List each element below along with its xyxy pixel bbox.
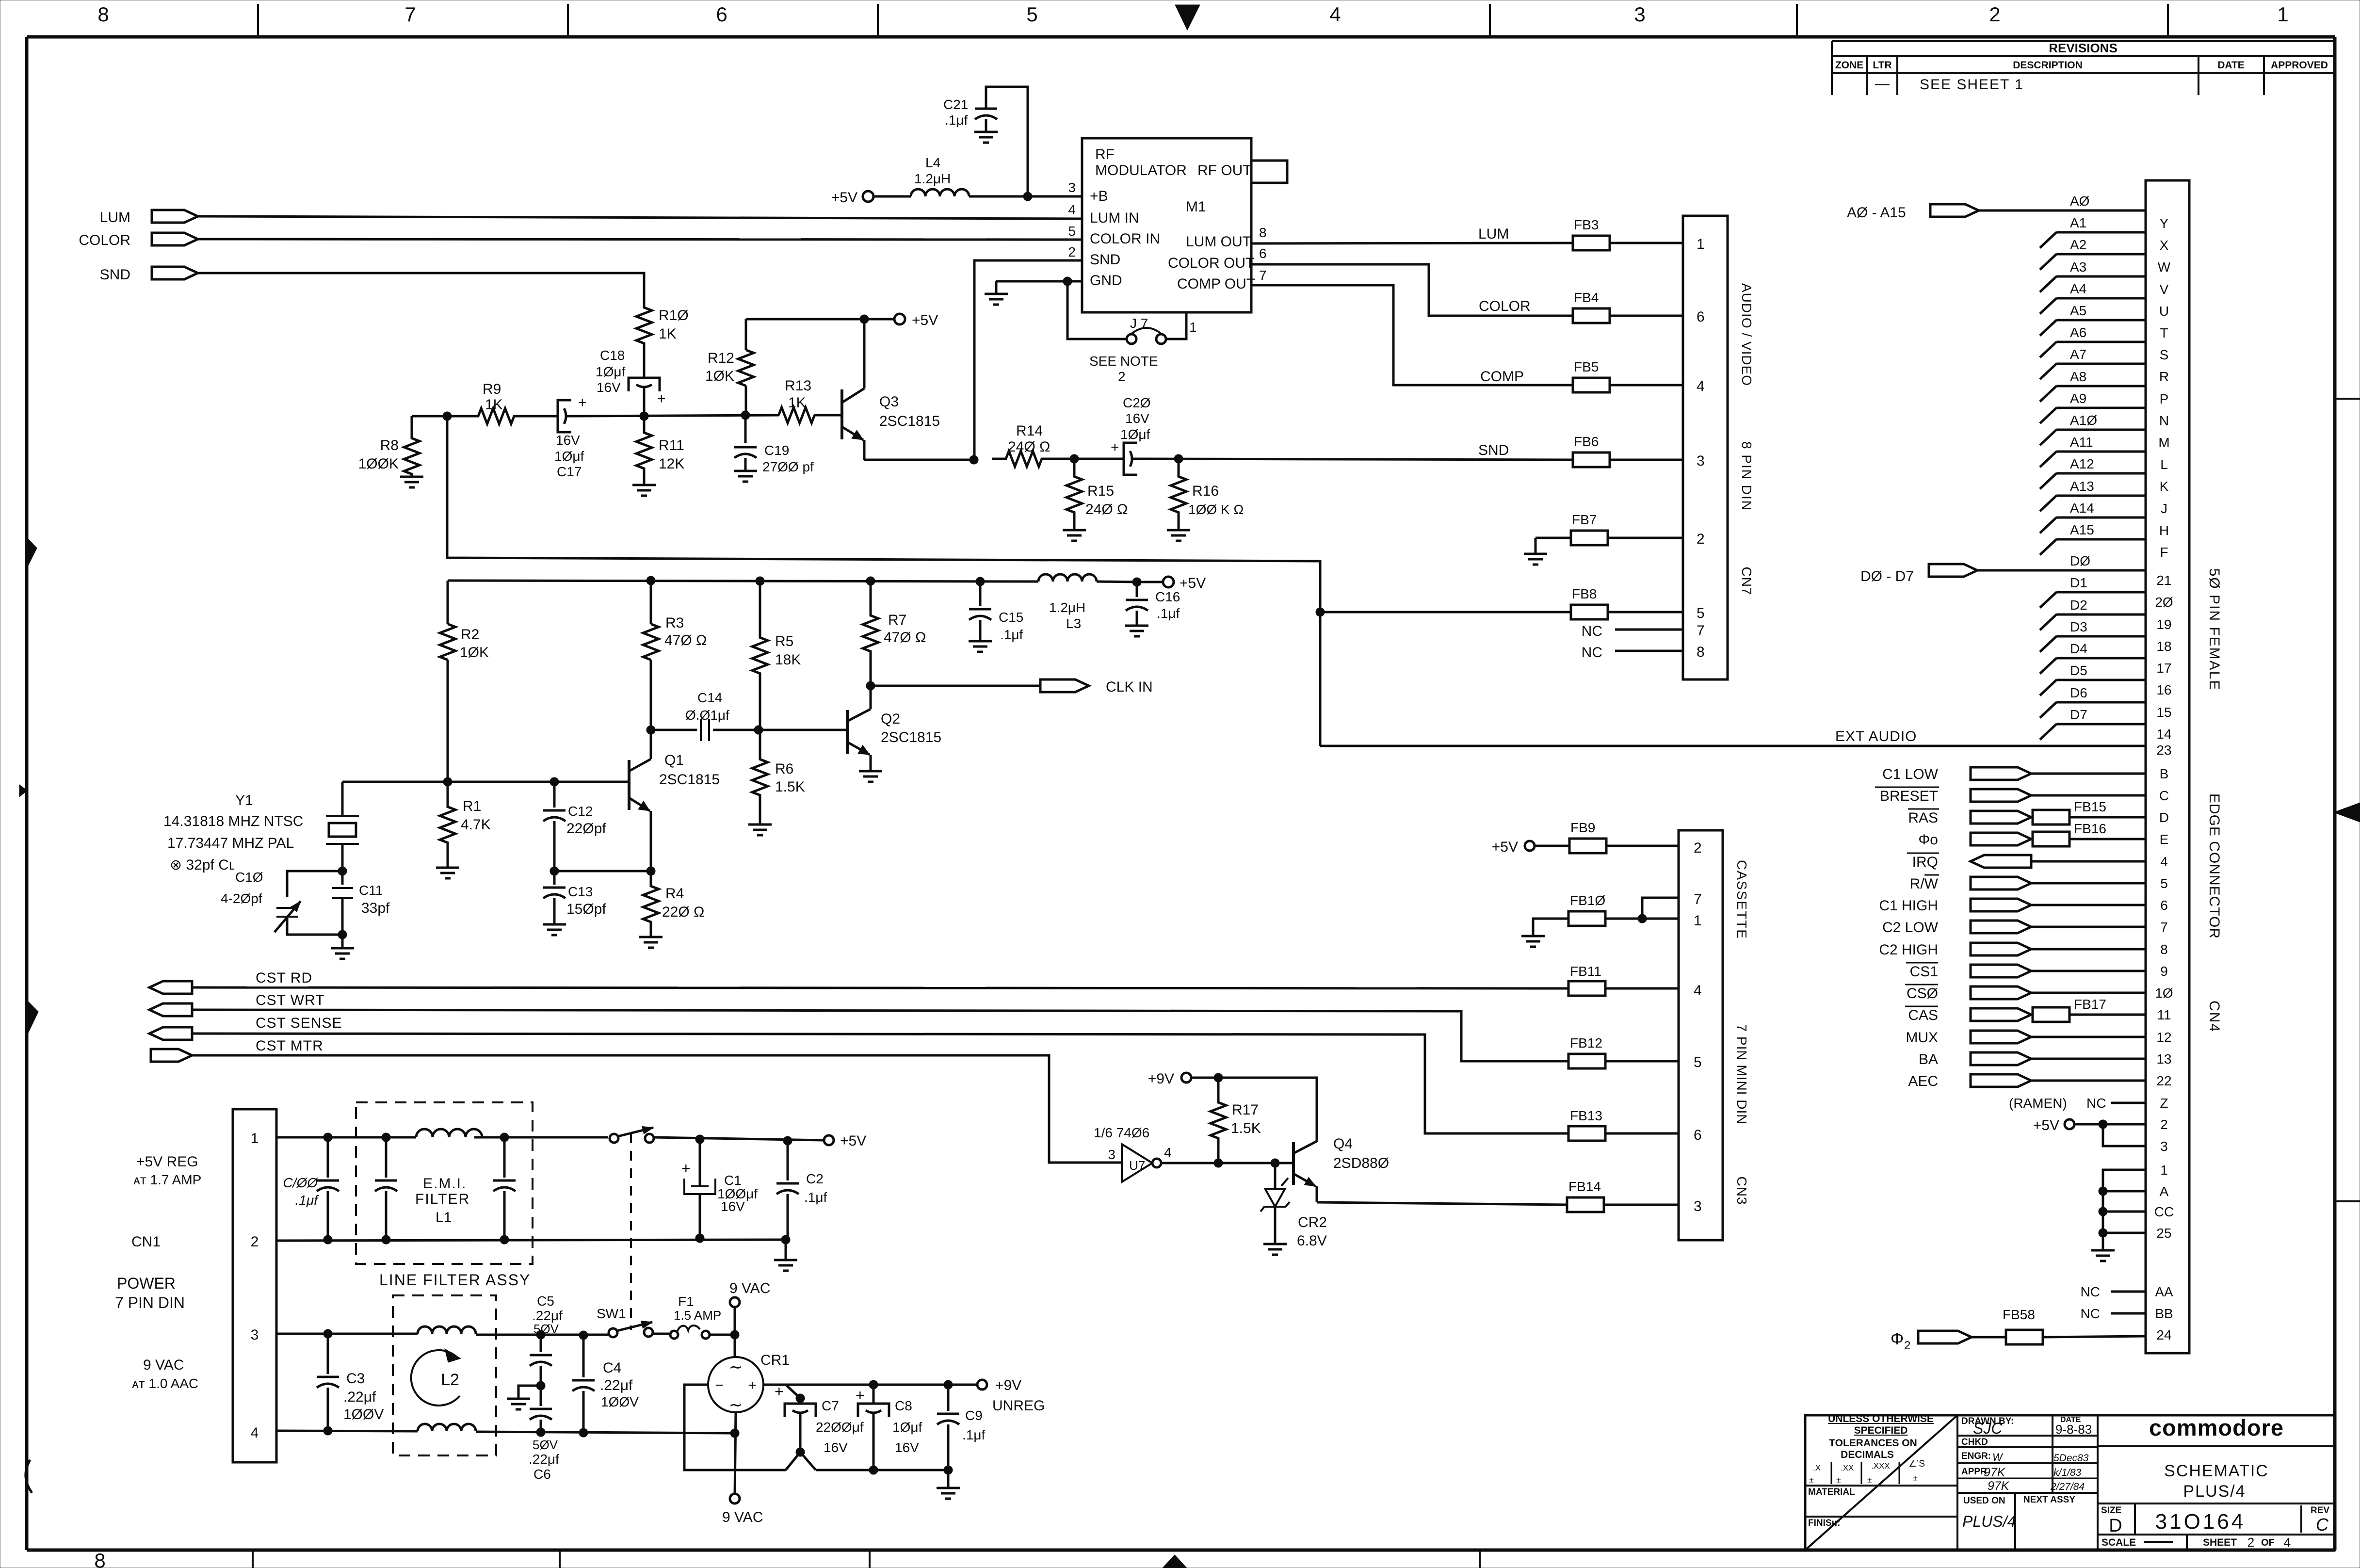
wire fuse to 9VAC node	[710, 1334, 735, 1336]
wire data line D7 to CN4	[2056, 723, 2146, 726]
capacitor C13	[553, 871, 556, 885]
svg-text:SIZE: SIZE	[2101, 1505, 2121, 1516]
ferrite bead FB3	[1573, 236, 1610, 250]
ferrite bead FB11	[1568, 981, 1605, 996]
svg-text:R17: R17	[1232, 1102, 1259, 1118]
svg-text:MATERIAL: MATERIAL	[1808, 1487, 1855, 1497]
svg-text:97K: 97K	[1984, 1466, 2006, 1479]
resistor R4	[643, 871, 659, 937]
svg-text:CST WRT: CST WRT	[256, 992, 325, 1008]
wire LUM OUT to FB3	[1251, 243, 1573, 243]
svg-text:J 7: J 7	[1130, 316, 1148, 331]
wire ground chain pins 1 A CC 25	[2103, 1170, 2146, 1250]
commodore logo	[2098, 1445, 2335, 1447]
svg-text:C7: C7	[822, 1398, 839, 1413]
wire address line A2 to CN4	[2056, 253, 2146, 256]
svg-text:C6: C6	[533, 1467, 551, 1482]
wire Q4 emitter to FB14	[1317, 1202, 1567, 1205]
transistor Q1	[628, 760, 630, 810]
svg-text:R12: R12	[708, 350, 734, 366]
svg-text:R4: R4	[665, 886, 684, 902]
svg-text:7 PIN DIN: 7 PIN DIN	[115, 1294, 185, 1311]
capacitor C10 trimmer	[338, 867, 347, 875]
svg-text:REV: REV	[2311, 1505, 2329, 1516]
capacitor C12	[553, 782, 556, 808]
svg-text:DATE: DATE	[2217, 60, 2245, 71]
wire C2 LOW to CN4 pin 7	[2031, 926, 2146, 928]
svg-text:R/W: R/W	[1910, 876, 1939, 892]
svg-text:C18: C18	[600, 348, 625, 363]
svg-text:FB11: FB11	[1570, 964, 1601, 979]
svg-text:3: 3	[1108, 1147, 1115, 1162]
svg-text:22Ø Ω: 22Ø Ω	[662, 904, 704, 920]
svg-text:.1μf: .1μf	[804, 1190, 827, 1205]
svg-text:C2 HIGH: C2 HIGH	[1879, 942, 1938, 958]
title block material row	[1805, 1485, 1957, 1487]
resistor R14	[992, 451, 1056, 467]
wire CAS to CN4 pin 11	[2031, 1014, 2033, 1016]
svg-text:K: K	[2160, 479, 2169, 494]
wire +5V rail at Q3 collector	[746, 318, 894, 321]
ferrite bead FB14	[1567, 1197, 1604, 1212]
svg-text:±: ±	[1809, 1475, 1814, 1485]
inductor L4	[873, 195, 911, 198]
svg-text:C1: C1	[724, 1173, 742, 1188]
svg-text:FB12: FB12	[1570, 1035, 1602, 1051]
svg-text:J: J	[2161, 501, 2167, 516]
title block scale sheet row	[2098, 1534, 2335, 1536]
wire address line A9 to CN4	[2056, 407, 2146, 409]
svg-text:LUM IN: LUM IN	[1090, 210, 1139, 226]
svg-text:8: 8	[1697, 644, 1705, 660]
svg-text:5Dec83: 5Dec83	[2053, 1453, 2089, 1464]
connector CN4 pin box	[2146, 180, 2189, 1353]
svg-text:1: 1	[2277, 3, 2288, 26]
svg-text:16: 16	[2156, 682, 2171, 697]
resistor R11	[636, 416, 652, 485]
svg-text:DØ - D7: DØ - D7	[1860, 568, 1914, 584]
svg-text:22: 22	[2156, 1073, 2171, 1088]
wire address line A13 to CN4	[2056, 495, 2146, 497]
svg-text:.XX: .XX	[1841, 1463, 1854, 1472]
svg-text:A2: A2	[2070, 237, 2086, 252]
svg-text:+9V: +9V	[995, 1377, 1021, 1393]
svg-text:FB58: FB58	[2003, 1307, 2035, 1322]
svg-text:A11: A11	[2070, 435, 2093, 450]
svg-text:1K: 1K	[659, 326, 677, 342]
svg-text:CS1: CS1	[1910, 964, 1938, 980]
wire address line A4 to CN4	[2056, 297, 2146, 300]
svg-text:+: +	[856, 1387, 865, 1404]
svg-text:7: 7	[1694, 891, 1702, 907]
svg-text:3: 3	[251, 1327, 259, 1343]
svg-text:REVISIONS: REVISIONS	[2049, 41, 2118, 55]
ground under R4	[639, 937, 663, 948]
title block engr row	[1957, 1462, 2098, 1464]
svg-text:EXT AUDIO: EXT AUDIO	[1835, 728, 1917, 744]
svg-text:3: 3	[1697, 453, 1705, 469]
ground under R11	[632, 485, 656, 496]
svg-text:9 VAC: 9 VAC	[729, 1280, 770, 1296]
svg-text:D7: D7	[2070, 707, 2087, 722]
svg-text:5: 5	[1068, 224, 1076, 239]
svg-text:A1: A1	[2070, 215, 2086, 230]
+9V terminal	[1181, 1073, 1191, 1083]
wire FB8 from EXT AUDIO vertical	[1320, 611, 1571, 614]
wire BRESET to CN4 pin C	[2031, 794, 2146, 797]
svg-text:7: 7	[1259, 268, 1267, 283]
wire FB10 to CN3 pins 1 and 7	[1605, 918, 1679, 920]
svg-text:SEE SHEET 1: SEE SHEET 1	[1920, 77, 2024, 93]
svg-text:RAS: RAS	[1908, 810, 1938, 826]
svg-text:CLK IN: CLK IN	[1106, 679, 1153, 695]
wire D bus to ladder	[1977, 569, 2056, 572]
svg-text:U: U	[2159, 304, 2169, 319]
ground end of line 2	[785, 1240, 787, 1260]
wire address line A1Ø to CN4	[2056, 429, 2146, 431]
svg-text:FILTER: FILTER	[415, 1191, 470, 1207]
svg-text:IRQ: IRQ	[1912, 854, 1938, 870]
svg-text:+: +	[775, 1383, 784, 1400]
wire RAS to CN4 pin D	[2031, 816, 2033, 819]
svg-text:1/6 74Ø6: 1/6 74Ø6	[1094, 1125, 1149, 1140]
wire FB13 to CN3 pin 6	[1605, 1132, 1679, 1135]
svg-text:14.31818 MHZ NTSC: 14.31818 MHZ NTSC	[163, 813, 303, 829]
svg-text:MODULATOR: MODULATOR	[1095, 162, 1187, 178]
svg-text:D: D	[2109, 1516, 2122, 1536]
svg-text:+: +	[1111, 439, 1119, 455]
svg-text:1ØK: 1ØK	[705, 368, 734, 384]
capacitor C2	[787, 1141, 789, 1180]
EMI filter dashed box L1	[356, 1102, 533, 1264]
capacitor C9	[947, 1385, 950, 1411]
ground under C9	[947, 1470, 950, 1488]
svg-text:8: 8	[2160, 942, 2168, 957]
wire Q1 base line	[342, 781, 629, 783]
svg-text:3: 3	[1068, 180, 1076, 195]
svg-text:COLOR IN: COLOR IN	[1090, 231, 1160, 247]
+5V terminal at CN4 pin 2	[2065, 1119, 2074, 1129]
svg-text:R1: R1	[463, 798, 481, 814]
svg-text:NC: NC	[1582, 645, 1602, 661]
svg-text:FB16: FB16	[2074, 821, 2106, 836]
connector CN3 box	[1679, 830, 1723, 1240]
svg-text:A13: A13	[2070, 479, 2094, 494]
svg-text:A3: A3	[2070, 259, 2086, 275]
wire Q3 emitter to R14	[864, 459, 974, 461]
svg-text:5: 5	[2160, 876, 2168, 891]
svg-text:8: 8	[97, 3, 109, 26]
capacitor C4	[582, 1335, 585, 1377]
svg-text:25: 25	[2156, 1226, 2171, 1241]
title block diagonal	[1805, 1415, 1957, 1550]
svg-text:1.2μH: 1.2μH	[1049, 600, 1085, 615]
switch SW1 section b	[609, 1328, 617, 1337]
ground under C11	[341, 935, 344, 948]
svg-text:2: 2	[251, 1234, 259, 1250]
L2 coil bottom	[418, 1424, 476, 1431]
svg-text:4: 4	[2284, 1535, 2291, 1550]
svg-text:DØ: DØ	[2070, 553, 2090, 568]
svg-text:⊗ 32pf Cʟ: ⊗ 32pf Cʟ	[170, 857, 235, 873]
svg-text:47Ø Ω: 47Ø Ω	[884, 630, 926, 646]
svg-text:33pf: 33pf	[361, 900, 390, 916]
resistor R5	[752, 581, 768, 730]
wire C1 HIGH to CN4 pin 6	[2031, 904, 2146, 906]
svg-text:.1μf: .1μf	[962, 1427, 985, 1442]
wire address line A7 to CN4	[2056, 363, 2146, 365]
svg-text:2: 2	[1118, 369, 1126, 384]
svg-text:CST RD: CST RD	[256, 970, 312, 986]
title block appr rows	[1957, 1478, 2098, 1479]
svg-text:24Ø Ω: 24Ø Ω	[1085, 501, 1128, 517]
capacitor C3	[327, 1334, 329, 1374]
svg-text:+: +	[748, 1377, 757, 1393]
wire node line with R9 and C17	[412, 415, 478, 418]
svg-text:5ØV: 5ØV	[533, 1438, 558, 1452]
jumper J7	[1067, 281, 1127, 339]
wire Φo to CN4 pin E	[2031, 838, 2033, 841]
svg-text:18: 18	[2156, 639, 2171, 654]
connector CN7 box	[1683, 216, 1728, 679]
svg-text:Φo: Φo	[1918, 832, 1938, 848]
wire FB12 to CN3 pin 5	[1605, 1060, 1679, 1063]
svg-text:CR2: CR2	[1298, 1214, 1327, 1230]
svg-text:R15: R15	[1087, 483, 1114, 499]
svg-text:A6: A6	[2070, 325, 2086, 340]
wire COLOR OUT to FB4	[1251, 264, 1573, 316]
svg-text:15: 15	[2156, 705, 2171, 720]
resistor R2	[447, 581, 449, 624]
wire line 1 from CN1 pin 1	[276, 1136, 416, 1139]
svg-text:A14: A14	[2070, 501, 2094, 516]
wire C20 to FB6	[1142, 459, 1573, 460]
svg-text:R5: R5	[775, 633, 793, 649]
capacitor C19	[744, 415, 747, 443]
svg-text:12: 12	[2156, 1030, 2171, 1045]
svg-text:C2: C2	[806, 1171, 824, 1186]
ground under C16	[1125, 626, 1148, 636]
switch SW1 section a	[610, 1134, 618, 1143]
L2 coil top	[418, 1326, 476, 1334]
svg-text:2SD88Ø: 2SD88Ø	[1333, 1155, 1389, 1171]
ground under C13	[543, 924, 566, 935]
svg-text:DESCRIPTION: DESCRIPTION	[2013, 60, 2083, 71]
svg-text:3: 3	[1634, 3, 1645, 26]
ground at FB7	[1535, 538, 1537, 554]
inductor L3	[1038, 574, 1097, 582]
svg-text:4.7K: 4.7K	[461, 817, 491, 833]
svg-text:27ØØ pf: 27ØØ pf	[762, 459, 814, 474]
svg-text:ENGR:: ENGR:	[1961, 1451, 1991, 1461]
ferrite bead FB9	[1569, 839, 1606, 853]
ferrite bead FB13	[1568, 1126, 1605, 1141]
wire line 4 from CN1 pin 4	[276, 1431, 418, 1431]
svg-text:A9: A9	[2070, 391, 2086, 406]
svg-text:AØ: AØ	[2070, 194, 2089, 209]
capacitor C15	[979, 582, 982, 606]
wire FB14 to CN3 pin 3	[1604, 1204, 1679, 1206]
inverter U7 1/6 7406	[1122, 1144, 1152, 1182]
svg-text:1Øμf: 1Øμf	[554, 449, 584, 464]
capacitor C8	[873, 1385, 875, 1404]
ferrite bead FB5	[1573, 378, 1610, 392]
svg-text:C3: C3	[346, 1371, 365, 1387]
svg-text:C14: C14	[697, 690, 722, 705]
wire address line A15 to CN4	[2056, 538, 2146, 541]
svg-text:COLOR: COLOR	[79, 232, 130, 248]
svg-text:1Øμf: 1Øμf	[596, 364, 625, 379]
svg-text:23: 23	[2156, 743, 2171, 758]
svg-text:17: 17	[2156, 661, 2171, 676]
svg-text:U7: U7	[1129, 1158, 1145, 1173]
title block used on / next assy	[1957, 1492, 2098, 1494]
capacitor C100	[327, 1137, 329, 1178]
svg-text:LUM: LUM	[1478, 226, 1509, 242]
svg-text:12K: 12K	[659, 456, 684, 472]
wire C2 HIGH to CN4 pin 8	[2031, 948, 2146, 951]
wire CST RD to FB11	[192, 987, 1568, 988]
svg-text:22Øpf: 22Øpf	[566, 821, 606, 837]
svg-text:16V: 16V	[895, 1440, 919, 1455]
svg-text:EDGE CONNECTOR: EDGE CONNECTOR	[2206, 793, 2222, 939]
+5V terminal at L3	[1163, 577, 1174, 587]
svg-text:L4: L4	[925, 155, 940, 170]
svg-text:A15: A15	[2070, 522, 2094, 537]
svg-text:4: 4	[1697, 378, 1705, 394]
resistor R15	[1067, 459, 1082, 530]
svg-text:1K: 1K	[788, 395, 806, 411]
svg-text:Φ: Φ	[1891, 1330, 1904, 1348]
wire LUM input to modulator pin 4	[198, 216, 1082, 219]
svg-text:NC: NC	[2086, 1096, 2106, 1111]
ferrite bead FB8	[1571, 605, 1608, 619]
svg-text:5: 5	[1026, 3, 1037, 26]
svg-text:Q1: Q1	[664, 752, 684, 768]
svg-text:4: 4	[251, 1425, 259, 1441]
wire data line D6 to CN4	[2056, 701, 2146, 704]
svg-text:N: N	[2159, 413, 2169, 428]
+5V terminal line 1	[824, 1135, 834, 1145]
svg-text:17.73447 MHZ PAL: 17.73447 MHZ PAL	[167, 835, 294, 851]
svg-text:C12: C12	[568, 804, 593, 819]
wire FB5 to CN7 pin 4	[1610, 384, 1683, 387]
wire line 2 from CN1 pin 2	[276, 1240, 786, 1241]
svg-text:11: 11	[2157, 1007, 2171, 1022]
+9V UNREG terminal	[977, 1380, 987, 1390]
left border scan marks	[27, 537, 37, 568]
wire address line A11 to CN4	[2056, 451, 2146, 453]
wire node to EXT AUDIO line	[447, 416, 1320, 746]
node CLK IN	[1040, 679, 1089, 692]
svg-text:POWER: POWER	[117, 1275, 176, 1292]
svg-text:ᴀᴛ 1.7 AMP: ᴀᴛ 1.7 AMP	[133, 1172, 201, 1187]
wire CR1 plus to +9V rail	[763, 1384, 977, 1386]
svg-text:SND: SND	[1478, 442, 1509, 458]
fuse F1	[653, 1333, 670, 1335]
svg-text:+5V: +5V	[1180, 575, 1206, 591]
svg-text:CN1: CN1	[131, 1234, 161, 1250]
wire Q1 emitter to C12 bottom	[554, 870, 651, 873]
svg-text:1.2μH: 1.2μH	[914, 171, 951, 186]
svg-text:9 VAC: 9 VAC	[722, 1509, 763, 1525]
wire address line A12 to CN4	[2056, 472, 2146, 475]
svg-text:1Øμf: 1Øμf	[892, 1420, 922, 1435]
svg-text:OF: OF	[2261, 1537, 2275, 1548]
svg-text:E.M.I.: E.M.I.	[423, 1176, 467, 1192]
svg-text:CC: CC	[2154, 1204, 2174, 1219]
svg-text:6: 6	[716, 3, 727, 26]
svg-text:BB: BB	[2155, 1306, 2173, 1321]
svg-text:Y1: Y1	[235, 792, 253, 808]
resistor R16	[1171, 459, 1186, 530]
svg-text:RF: RF	[1095, 146, 1115, 162]
svg-text:C2 LOW: C2 LOW	[1882, 920, 1939, 936]
+5V terminal at FB9	[1525, 841, 1535, 851]
svg-text:2: 2	[1697, 531, 1705, 547]
svg-text:∼: ∼	[729, 1396, 743, 1414]
transistor Q3	[814, 414, 842, 417]
svg-text:15Øpf: 15Øpf	[566, 901, 606, 917]
svg-text:R9: R9	[483, 381, 501, 397]
svg-text:4: 4	[1329, 3, 1341, 26]
svg-text:SND: SND	[1090, 252, 1120, 268]
svg-text:NC: NC	[2081, 1284, 2100, 1299]
resistor R1	[440, 782, 455, 868]
ground under R8	[400, 477, 423, 487]
ground under R16	[1167, 530, 1190, 541]
svg-text:1ØØ K Ω: 1ØØ K Ω	[1188, 502, 1244, 517]
svg-text:4: 4	[2160, 854, 2168, 869]
wire address line A14 to CN4	[2056, 517, 2146, 519]
svg-text:R14: R14	[1016, 423, 1043, 439]
9VAC terminal top	[730, 1297, 740, 1307]
wire AEC to CN4 pin 22	[2031, 1080, 2146, 1082]
svg-text:2SC1815: 2SC1815	[659, 772, 720, 788]
svg-text:1ØK: 1ØK	[460, 645, 489, 661]
node C12/C13/emitter junction	[550, 867, 559, 875]
svg-text:D5: D5	[2070, 663, 2087, 678]
svg-text:COMP OUT: COMP OUT	[1177, 276, 1255, 292]
svg-text:16V: 16V	[1125, 411, 1149, 426]
svg-text:AA: AA	[2155, 1284, 2173, 1299]
svg-text:R1Ø: R1Ø	[659, 307, 689, 323]
svg-text:±: ±	[1867, 1475, 1872, 1485]
wire address line A6 to CN4	[2056, 341, 2146, 343]
wire CST SENSE to FB13	[192, 1034, 1568, 1133]
svg-text:+5V: +5V	[840, 1133, 866, 1149]
dashed switch link SW1	[630, 1133, 632, 1330]
wire bottom rail	[816, 1469, 948, 1471]
svg-text:P: P	[2160, 391, 2169, 406]
svg-text:E: E	[2160, 832, 2169, 847]
resistor R3	[650, 581, 652, 624]
svg-text:—: —	[1875, 76, 1890, 92]
resistor R10	[636, 273, 652, 378]
EMI coil on line 1	[416, 1129, 482, 1137]
svg-text:FB15: FB15	[2074, 799, 2106, 814]
ground under C15	[969, 641, 992, 652]
svg-text:C/ØØ: C/ØØ	[283, 1175, 319, 1190]
crystal Y1	[341, 782, 344, 816]
ferrite bead FB7	[1536, 537, 1571, 539]
svg-text:97K: 97K	[1988, 1479, 2010, 1493]
svg-text:5: 5	[1697, 605, 1705, 621]
capacitor C6	[530, 1409, 552, 1420]
svg-text:A: A	[2160, 1184, 2169, 1199]
svg-text:D6: D6	[2070, 685, 2087, 700]
svg-text:∠’S: ∠’S	[1908, 1459, 1925, 1469]
